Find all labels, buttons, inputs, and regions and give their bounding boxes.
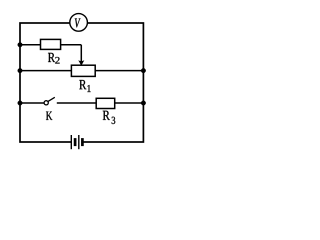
wire outer frame loop	[20, 23, 143, 142]
label R1	[79, 80, 86, 89]
wire switch branch right	[57, 102, 144, 104]
junction node at R2 tap on left rail	[18, 43, 23, 48]
label R2	[48, 53, 55, 62]
junction node at R3 right	[141, 101, 146, 106]
switch K lever	[48, 97, 55, 101]
junction node at switch branch left	[18, 101, 23, 106]
label K	[46, 112, 52, 120]
battery long plate 2	[78, 135, 80, 149]
junction node at R1 right	[141, 68, 146, 73]
wire wiper vertical	[80, 45, 82, 61]
junction node at R1 left	[18, 68, 23, 73]
label R3 subscript 3	[112, 117, 116, 124]
resistor R1 (potentiometer track)	[71, 65, 95, 76]
battery short thick plate 2	[81, 138, 84, 146]
label R3	[103, 111, 110, 120]
resistor R3	[96, 98, 115, 108]
label R1 subscript 1	[87, 85, 90, 92]
wire switch branch left	[20, 102, 44, 104]
battery long plate 1	[70, 135, 72, 149]
switch K pivot circle	[44, 101, 48, 105]
label R2 subscript 2	[55, 57, 59, 64]
wiper arrowhead onto R1	[78, 60, 84, 65]
battery short thick plate 1	[74, 138, 77, 146]
battery BT1: white gap in bottom wire	[72, 136, 83, 148]
voltmeter U1 circle	[70, 14, 88, 32]
wire R1 branch horizontal	[20, 70, 143, 72]
wire R2 branch horizontal	[20, 44, 81, 46]
resistor R2	[41, 39, 61, 49]
voltmeter label V	[75, 19, 81, 28]
